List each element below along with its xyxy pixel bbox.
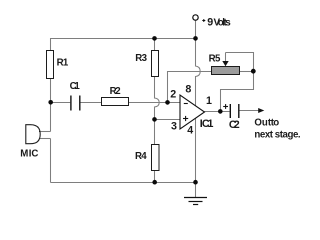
- svg-text:R5: R5: [209, 53, 221, 64]
- svg-text:R1: R1: [57, 57, 69, 68]
- svg-text:next stage.: next stage.: [254, 129, 300, 140]
- svg-text:1: 1: [206, 95, 212, 107]
- svg-text:9Volts: 9Volts: [207, 16, 231, 28]
- svg-text:R3: R3: [135, 53, 147, 64]
- svg-text:Outto: Outto: [254, 118, 279, 129]
- svg-text:8: 8: [185, 84, 191, 96]
- svg-text:C1: C1: [70, 81, 81, 92]
- svg-text:IC1: IC1: [200, 118, 214, 130]
- svg-text:2: 2: [170, 89, 176, 101]
- svg-text:R2: R2: [110, 86, 121, 97]
- svg-text:3: 3: [171, 121, 177, 133]
- svg-text:4: 4: [187, 125, 193, 137]
- svg-text:C2: C2: [229, 119, 240, 131]
- svg-text:MIC: MIC: [20, 148, 38, 159]
- svg-text:R4: R4: [135, 151, 147, 162]
